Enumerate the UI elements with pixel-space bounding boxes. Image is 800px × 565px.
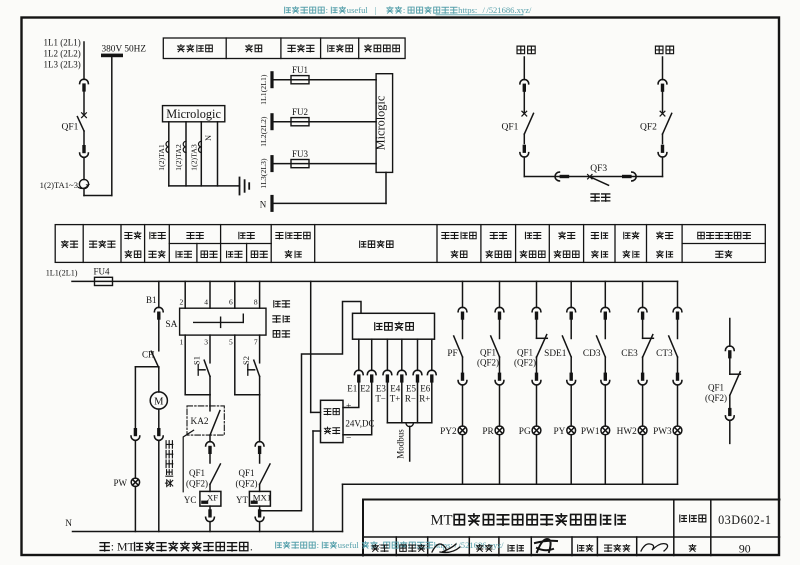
- svg-text:E2: E2: [360, 384, 370, 394]
- svg-text:E6: E6: [420, 384, 430, 394]
- svg-text:1L1(2L1): 1L1(2L1): [46, 269, 78, 278]
- svg-text:QF1: QF1: [238, 468, 254, 478]
- svg-text:E3: E3: [376, 384, 386, 394]
- wire: [169, 185, 240, 187]
- svg-text:PR: PR: [482, 427, 494, 437]
- terminal E4: [390, 339, 406, 403]
- svg-text::: :: [326, 5, 328, 15]
- svg-text::: :: [111, 540, 114, 554]
- svg-text:2: 2: [179, 298, 183, 307]
- svg-text:KA2: KA2: [191, 417, 209, 427]
- leader: from tie cabinet: [165, 430, 193, 492]
- svg-text:1(2)TA1: 1(2)TA1: [157, 144, 166, 171]
- fuse FU1: [259, 65, 376, 105]
- wire: [168, 122, 170, 186]
- wire junction: [235, 394, 260, 396]
- svg-text:1L1 (2L1): 1L1 (2L1): [44, 38, 81, 48]
- svg-text:03D602-1: 03D602-1: [718, 513, 771, 527]
- svg-text:1L3 (2L3): 1L3 (2L3): [44, 60, 81, 70]
- svg-text:(QF2): (QF2): [514, 358, 536, 368]
- svg-text:MT: MT: [117, 540, 136, 554]
- svg-text::: :: [403, 5, 405, 15]
- terminal E5: [405, 339, 422, 403]
- svg-text:R−: R−: [405, 393, 416, 403]
- svg-text:HW2: HW2: [617, 427, 637, 437]
- ground: [240, 178, 250, 195]
- svg-text:4: 4: [204, 298, 208, 307]
- svg-text:6: 6: [229, 298, 233, 307]
- wire: [185, 122, 187, 186]
- svg-text:24V,DC: 24V,DC: [345, 419, 374, 429]
- lamp PW branch: [114, 367, 159, 532]
- wire: [83, 189, 85, 196]
- wire: [217, 122, 219, 186]
- breaker QF2 draw-out: [640, 57, 672, 177]
- svg-text:PW: PW: [114, 478, 128, 488]
- op-amp measuring unit Micrologic (voltage): [373, 74, 392, 173]
- svg-text:QF1: QF1: [708, 383, 724, 393]
- breaker QF1 draw-out: [502, 57, 534, 177]
- svg-text:N: N: [204, 135, 213, 141]
- svg-text:useful: useful: [347, 5, 369, 15]
- pushbutton S2: [242, 335, 260, 395]
- svg-text:1(2)TA3: 1(2)TA3: [189, 144, 198, 171]
- svg-text:(QF2): (QF2): [236, 479, 258, 489]
- lamp PR: [482, 385, 504, 484]
- incoming line label (left): [517, 46, 525, 54]
- svg-text:/521686.xyz/: /521686.xyz/: [458, 540, 504, 550]
- sign row: [372, 542, 751, 556]
- svg-text:1: 1: [179, 338, 183, 347]
- pushbutton S1: [193, 335, 211, 395]
- svg-text::: :: [317, 540, 319, 550]
- contact QF1(QF2) interlock to tie cabinet: [705, 319, 740, 444]
- svg-text:1L2(2L2): 1L2(2L2): [259, 116, 268, 147]
- tie breaker QF3: [555, 164, 636, 185]
- svg-text:CE3: CE3: [621, 349, 638, 359]
- fuse FU3: [259, 149, 376, 189]
- contact QF1(QF2) opening path: [236, 395, 271, 489]
- svg-text:S2: S2: [242, 356, 251, 365]
- svg-text:https:: https:: [458, 5, 477, 15]
- contact CD3 signal branch: [583, 281, 610, 385]
- coil YT opening release MX1: [236, 484, 271, 531]
- wire: [200, 122, 202, 186]
- svg-text:FU1: FU1: [292, 65, 308, 75]
- svg-text:.: .: [250, 540, 253, 554]
- svg-text:E4: E4: [390, 384, 400, 394]
- breaker QF1 main draw-out: [62, 79, 89, 157]
- contact SDE1 signal branch: [544, 281, 575, 385]
- wire pin1: [184, 335, 186, 395]
- svg-text:CT3: CT3: [656, 349, 673, 359]
- svg-text:YC: YC: [184, 495, 197, 505]
- svg-text:E1: E1: [347, 384, 357, 394]
- incoming line label (right): [655, 46, 663, 54]
- svg-text:CH: CH: [142, 350, 155, 360]
- CT secondary 1(2)TA2: [174, 141, 186, 171]
- svg-text:7: 7: [254, 338, 258, 347]
- wire pin5: [234, 335, 236, 395]
- svg-text:PG: PG: [519, 427, 531, 437]
- svg-text:QF1: QF1: [502, 123, 519, 133]
- tie label: [591, 194, 599, 201]
- svg-text:(QF2): (QF2): [186, 479, 208, 489]
- busbar 380V 50HZ: [101, 45, 146, 58]
- wire junction: [185, 394, 210, 396]
- svg-text:useful: useful: [338, 540, 360, 550]
- svg-text:PY: PY: [554, 427, 566, 437]
- lamp HW2: [617, 385, 647, 484]
- coil YC closing release XF: [184, 484, 221, 531]
- op-amp relay unit Micrologic (protection unit): [163, 106, 225, 122]
- svg-text:FU4: FU4: [93, 267, 110, 277]
- contact QF1(QF2) closing path: [186, 435, 220, 488]
- svg-text:Micrologic: Micrologic: [373, 95, 387, 150]
- terminal E3: [375, 339, 391, 403]
- svg-text:QF1: QF1: [480, 348, 496, 358]
- svg-text:E5: E5: [406, 384, 416, 394]
- lamp PG: [519, 385, 541, 484]
- svg-text:MT: MT: [431, 513, 453, 529]
- wire E2 to −: [343, 383, 372, 435]
- terminal E1: [347, 339, 363, 393]
- svg-text:YT: YT: [236, 495, 248, 505]
- lamp PY: [554, 385, 576, 484]
- terminal E2: [360, 339, 376, 393]
- svg-text:QF1: QF1: [62, 123, 79, 133]
- lamp PY2: [440, 385, 467, 484]
- svg-text:QF1: QF1: [517, 348, 533, 358]
- svg-text:S1: S1: [193, 356, 202, 365]
- CT secondary 1(2)TA1: [157, 141, 169, 171]
- note: MT data provided by Schneider: [100, 543, 109, 551]
- wire: [83, 157, 85, 179]
- svg-text:380V 50HZ: 380V 50HZ: [102, 45, 147, 55]
- svg-text:QF1: QF1: [189, 468, 205, 478]
- motor M (spring charge): [150, 368, 167, 409]
- svg-text:B1: B1: [146, 295, 157, 305]
- svg-text:PY2: PY2: [440, 427, 457, 437]
- contact QF1(QF2) signal branch: [477, 281, 504, 385]
- net N rail: [65, 519, 342, 532]
- signature scribbles: [432, 539, 668, 552]
- svg-text:PW3: PW3: [653, 427, 672, 437]
- contact PF signal branch: [447, 281, 467, 385]
- svg-text:1(2)TA2: 1(2)TA2: [174, 144, 183, 171]
- selector switch SA: [165, 281, 266, 346]
- svg-text:SDE1: SDE1: [544, 349, 567, 359]
- plug contact B1: [146, 281, 163, 319]
- svg-text:PW1: PW1: [581, 427, 600, 437]
- CT secondary 1(2)TA3: [189, 141, 201, 171]
- svg-text:QF2: QF2: [640, 123, 657, 133]
- svg-text:M: M: [154, 397, 164, 408]
- contact CE3 signal branch: [621, 281, 653, 385]
- svg-text:FU3: FU3: [292, 149, 309, 159]
- table: function row (current circuit / busbar / fuse / low voltage / voltage measure): [163, 38, 405, 59]
- wire lamp return rail: [343, 483, 678, 485]
- svg-text:FU2: FU2: [292, 107, 308, 117]
- svg-text:XF: XF: [207, 492, 218, 502]
- svg-text:CD3: CD3: [583, 349, 601, 359]
- svg-text:1L1(2L1): 1L1(2L1): [259, 74, 268, 105]
- contact QF1(QF2) signal branch: [514, 281, 547, 385]
- lamp PW1: [581, 385, 610, 484]
- selector mode labels auto/stop/manual: [273, 301, 290, 338]
- switching power supply 24VDC: [311, 281, 375, 531]
- contact CH (charging): [142, 320, 159, 368]
- svg-text:90: 90: [739, 542, 751, 556]
- relay contact KA2 (from tie cabinet): [187, 395, 224, 435]
- fuse FU2: [259, 107, 376, 147]
- svg-text:T+: T+: [390, 393, 401, 403]
- svg-text:8: 8: [254, 298, 258, 307]
- title block: [363, 500, 780, 556]
- wire feeder drop: [83, 42, 85, 79]
- wire / plug: [154, 409, 163, 531]
- svg-text:/521686.xyz/: /521686.xyz/: [486, 5, 532, 15]
- svg-text:SA: SA: [165, 320, 177, 330]
- net L rail: [72, 280, 678, 282]
- communication module: [353, 313, 435, 339]
- contact CT3 signal branch: [656, 281, 682, 385]
- lamp PW3: [653, 385, 682, 484]
- svg-text:Micrologic: Micrologic: [166, 107, 221, 121]
- svg-text:Modbus: Modbus: [396, 429, 406, 459]
- node 1L1 1L2 1L3 phase labels: [44, 38, 81, 70]
- svg-text:QF3: QF3: [590, 164, 607, 174]
- svg-text:1L2 (2L2): 1L2 (2L2): [44, 49, 81, 59]
- svg-text:(QF2): (QF2): [705, 393, 727, 403]
- svg-text:1L3(2L3): 1L3(2L3): [259, 158, 268, 189]
- svg-text:1(2)TA1~3: 1(2)TA1~3: [40, 180, 78, 190]
- svg-text:5: 5: [229, 338, 233, 347]
- svg-text:PF: PF: [447, 349, 457, 359]
- svg-text:|: |: [374, 5, 376, 15]
- svg-text:N: N: [260, 199, 267, 209]
- svg-text:3: 3: [204, 338, 208, 347]
- svg-text:N: N: [65, 519, 72, 529]
- svg-text:(QF2): (QF2): [477, 358, 499, 368]
- wire E1 to +: [343, 383, 359, 408]
- wire tie bus: [524, 176, 662, 178]
- terminal E6: [419, 339, 436, 403]
- CT 1(2)TA1~3: [40, 179, 89, 190]
- svg-text:T−: T−: [375, 393, 386, 403]
- Modbus bus: [387, 383, 431, 461]
- atlas no. label: [680, 515, 687, 522]
- node N / wire: [260, 172, 386, 212]
- wire: comm module control link: [260, 302, 361, 511]
- svg-text:R+: R+: [419, 393, 430, 403]
- fuse FU4: [93, 267, 112, 286]
- table: control function header row: [55, 225, 765, 263]
